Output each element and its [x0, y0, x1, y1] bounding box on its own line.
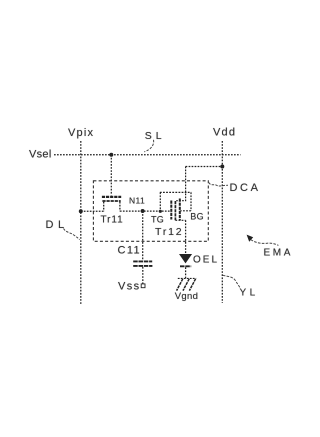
svg-text:TG: TG — [151, 215, 164, 225]
leader from DCA box corner to DCA label — [209, 183, 228, 187]
svg-text:YL: YL — [240, 287, 259, 298]
wire: row wire Tr11 drain to node N11 to TG plate — [120, 210, 171, 212]
wire: Vdd branch from YL to Tr12 — [186, 166, 223, 168]
transistor Tr12 (dual gate TG/BG) — [160, 192, 191, 220]
svg-text:Vdd: Vdd — [213, 127, 236, 139]
wire: Vdd drop to Tr12 channel — [176, 167, 185, 201]
wire: Tr11 gate drop — [110, 155, 112, 196]
svg-text:EMA: EMA — [264, 247, 293, 258]
box DCA dashed outline — [93, 181, 208, 242]
ground Vgnd symbol — [177, 278, 197, 290]
node: junction of Tr11 gate drop on select line — [109, 153, 113, 157]
node: junction on power line YL — [220, 165, 224, 169]
diode OEL (organic EL element) — [180, 254, 192, 278]
wire: capacitor C11 branch from N11 — [142, 211, 144, 261]
svg-text:OEL: OEL — [193, 254, 219, 265]
capacitor C11 — [133, 261, 152, 284]
svg-text:BG: BG — [190, 212, 204, 222]
wire: data line DL vertical — [80, 141, 82, 305]
svg-text:DL: DL — [46, 219, 69, 231]
svg-text:DCA: DCA — [230, 182, 261, 194]
svg-text:Vss: Vss — [118, 281, 141, 293]
svg-text:N11: N11 — [129, 196, 145, 206]
terminal Vss (open square) — [141, 284, 145, 288]
wire: power line YL vertical — [221, 141, 223, 303]
node: junction on data line DL — [79, 209, 83, 213]
svg-text:Vsel: Vsel — [29, 149, 52, 161]
svg-text:Tr11: Tr11 — [101, 215, 124, 226]
leader from DL label to data line — [64, 229, 80, 240]
svg-text:Tr12: Tr12 — [155, 226, 183, 238]
arrow EMA pointing at region between circuit and YL — [247, 235, 279, 246]
svg-text:C11: C11 — [118, 245, 142, 257]
node: junction of TG/BG routing on row wire — [159, 210, 162, 213]
svg-text:SL: SL — [145, 130, 166, 142]
svg-text:Vgnd: Vgnd — [175, 291, 198, 302]
svg-text:Vpix: Vpix — [68, 127, 94, 139]
leader from SL label to select line — [144, 140, 153, 152]
wire: select line (Vsel) horizontal — [54, 154, 241, 156]
node N11 — [141, 209, 145, 213]
wire: Tr12 drain down to OEL anode — [185, 220, 187, 254]
transistor Tr11 — [102, 197, 121, 211]
leader from power line to YL label — [223, 275, 241, 288]
wire: row wire from DL to Tr11 source — [81, 210, 104, 212]
